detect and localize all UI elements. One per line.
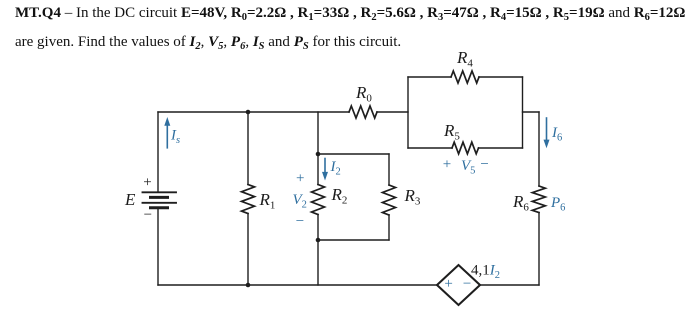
svg-text:4,1I2: 4,1I2: [471, 263, 500, 282]
svg-text:−: −: [480, 157, 488, 173]
resistor R0: [349, 106, 377, 118]
svg-text:R3: R3: [404, 186, 421, 208]
resistor R3: [383, 185, 396, 215]
wire stub box to right branch: [523, 111, 540, 113]
wire inner loop bottom: [318, 239, 389, 241]
resistor R2: [312, 185, 325, 215]
wire parallel-box top right of R4: [479, 76, 523, 78]
arrow Is (up): [164, 117, 170, 148]
svg-text:R6: R6: [512, 192, 529, 214]
svg-text:+: +: [443, 157, 451, 173]
wire parallel-box top left of R4: [408, 76, 451, 78]
wire R2 branch to bottom wire: [317, 240, 319, 285]
arrow I6 (down): [544, 118, 550, 148]
svg-text:−: −: [296, 214, 304, 230]
svg-text:V5: V5: [461, 158, 475, 177]
wire bottom right of diamond: [480, 284, 539, 286]
svg-text:I6: I6: [551, 125, 562, 144]
node dot at R1 top: [246, 110, 251, 115]
wire left branch above battery: [157, 112, 159, 192]
wire parallel-box bottom left of R5: [408, 147, 452, 149]
svg-text:R2: R2: [331, 185, 348, 207]
node dot inner loop top: [316, 152, 321, 157]
wire left branch below battery: [157, 208, 159, 285]
wire right branch upper: [538, 112, 540, 186]
problem statement text: [15, 0, 700, 56]
wire parallel-box bottom right of R5: [479, 147, 523, 149]
svg-text:R5: R5: [443, 121, 460, 143]
svg-text:+: +: [444, 276, 452, 292]
wire R2 branch from top wire: [317, 112, 319, 154]
svg-text:+: +: [143, 175, 151, 191]
svg-text:+: +: [296, 170, 304, 186]
dependent source diamond 4.1*I2: [437, 265, 480, 305]
wire R1 branch lower: [247, 214, 249, 286]
wire top horizontal left segment: [158, 111, 349, 113]
resistor R1: [242, 185, 255, 214]
svg-text:R1: R1: [259, 190, 276, 212]
svg-text:−: −: [144, 207, 152, 223]
wire R1 branch upper: [247, 112, 249, 185]
svg-text:Is: Is: [170, 128, 180, 147]
svg-text:E: E: [124, 190, 136, 209]
wire R2 lower stub: [317, 215, 319, 241]
svg-text:V2: V2: [293, 192, 307, 211]
wire R3 lower stub: [388, 215, 390, 240]
wire parallel-box right side: [522, 77, 524, 148]
wire R2 upper stub: [317, 154, 319, 185]
node dot inner loop bottom: [316, 238, 321, 243]
resistor R5: [452, 142, 479, 154]
wire R3 upper stub: [388, 154, 390, 185]
wire bottom left of diamond: [158, 284, 437, 286]
arrow I2 (down): [322, 159, 328, 181]
resistor R6: [532, 186, 545, 213]
wire right branch lower: [538, 213, 540, 286]
svg-text:R4: R4: [456, 48, 473, 69]
battery E plates: [143, 192, 177, 208]
wire parallel-box left side: [407, 77, 409, 148]
svg-text:R0: R0: [355, 83, 372, 105]
resistor R4: [451, 71, 479, 83]
wire R0 to parallel box: [377, 111, 408, 113]
node dot at R1 bottom: [246, 283, 251, 288]
svg-text:I2: I2: [330, 159, 341, 178]
wire inner loop top: [318, 153, 389, 155]
svg-text:P6: P6: [550, 195, 565, 214]
